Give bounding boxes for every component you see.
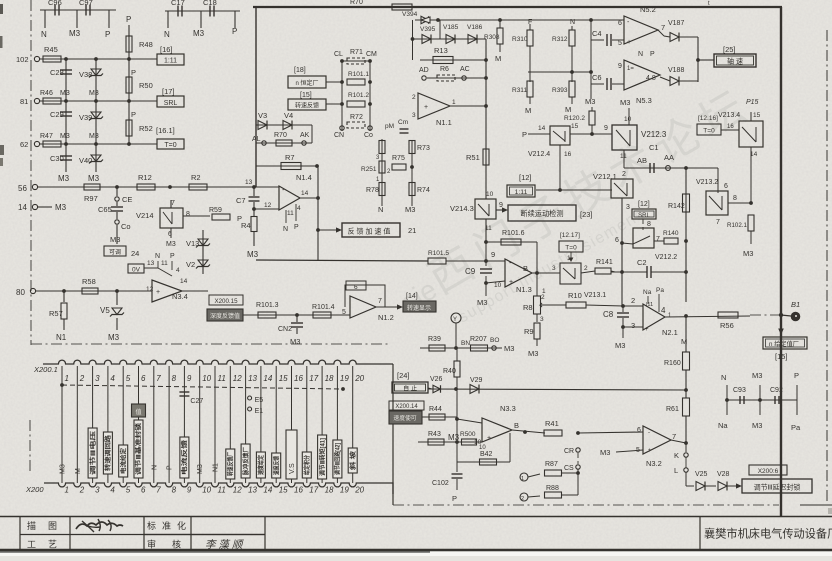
wire AB row — [624, 167, 686, 169]
terminal BO — [492, 346, 496, 350]
svg-text:R51: R51 — [466, 153, 480, 162]
svg-text:18: 18 — [325, 374, 334, 383]
wire AA to x718 — [686, 167, 718, 169]
node border B1 — [779, 313, 783, 317]
svg-text:调节Ⅲ延迟封锁: 调节Ⅲ延迟封锁 — [754, 483, 801, 492]
svg-text:AK: AK — [300, 132, 310, 139]
svg-text:R57: R57 — [49, 309, 63, 318]
svg-text:N1.1: N1.1 — [436, 118, 452, 127]
svg-text:X200.14: X200.14 — [395, 404, 418, 410]
svg-text:12: 12 — [233, 486, 242, 495]
svg-text:R70: R70 — [274, 132, 287, 139]
node CN2 — [295, 313, 299, 317]
svg-text:P: P — [105, 30, 110, 39]
wire N1.1 out — [450, 105, 486, 107]
svg-text:[12.17]: [12.17] — [560, 232, 580, 239]
svg-text:给定积分: 给定积分 — [303, 455, 311, 475]
svg-text:转速反馈: 转速反馈 — [295, 102, 319, 110]
svg-text:1:11: 1:11 — [164, 58, 177, 65]
wire row 62 — [39, 143, 157, 145]
connector dashed link — [62, 385, 343, 389]
node AA right — [684, 166, 688, 170]
svg-text:R43: R43 — [428, 431, 441, 438]
svg-text:n 恒定厂: n 恒定厂 — [295, 79, 318, 87]
node top rail c4 — [589, 18, 593, 22]
node join — [696, 58, 700, 62]
svg-text:转速调回路: 转速调回路 — [104, 434, 112, 471]
resistor R10 top border — [392, 4, 412, 10]
title block signature 1 — [76, 522, 123, 529]
svg-text:M3: M3 — [247, 250, 259, 259]
box n-set 恒定厂 — [288, 76, 326, 88]
svg-text:[15]: [15] — [300, 92, 312, 99]
resistor R101.1 — [347, 79, 365, 85]
svg-text:P: P — [452, 494, 457, 503]
fold mark dash-dot right — [826, 30, 828, 505]
resistor R41 — [544, 430, 562, 436]
resistor R71 dashed — [342, 60, 370, 62]
vertical CL column — [341, 61, 343, 131]
node y72 a — [570, 70, 574, 74]
svg-text:M3: M3 — [58, 174, 70, 183]
wire V213.4 down — [750, 147, 752, 202]
node R7 right — [315, 164, 319, 168]
pin6 dark box — [132, 404, 146, 417]
svg-text:速度给定: 速度给定 — [257, 455, 265, 475]
wire R43 row — [418, 441, 482, 443]
wire row 80 — [36, 290, 152, 292]
wire row 102 — [39, 58, 157, 60]
box 1:11 ratio — [157, 54, 184, 65]
capacitor C29 — [65, 101, 67, 144]
node row56 b — [168, 185, 172, 189]
box SRL — [157, 96, 184, 107]
svg-text:21: 21 — [408, 226, 416, 235]
big box left edge — [255, 7, 257, 187]
resistor R7 — [256, 165, 317, 167]
svg-text:化: 化 — [177, 520, 186, 531]
svg-text:P: P — [126, 15, 131, 24]
wire to R101.2 — [326, 103, 342, 105]
svg-text:M3: M3 — [752, 371, 762, 380]
svg-text:+: + — [648, 448, 652, 454]
svg-text:14: 14 — [180, 278, 188, 285]
box 0V — [128, 264, 144, 273]
terminal Co2 — [368, 126, 372, 130]
svg-text:调节Ⅲ电压: 调节Ⅲ电压 — [89, 431, 97, 475]
svg-text:C93: C93 — [733, 387, 746, 394]
svg-text:C18: C18 — [203, 0, 217, 7]
svg-text:62: 62 — [20, 140, 28, 149]
node pin6 bus — [620, 241, 624, 245]
node y72 b — [589, 70, 593, 74]
svg-text:12: 12 — [233, 374, 242, 383]
svg-text:M: M — [565, 105, 571, 114]
svg-text:+: + — [424, 104, 428, 111]
svg-text:R73: R73 — [417, 145, 430, 152]
svg-text:电流给定: 电流给定 — [119, 448, 127, 474]
svg-text:R101.3: R101.3 — [256, 302, 279, 309]
pin9 box 电流反馈 — [180, 437, 189, 478]
svg-text:R9: R9 — [524, 327, 534, 336]
diode V394 — [421, 16, 429, 24]
wire V25 V28 — [705, 485, 716, 487]
svg-text:1: 1 — [567, 255, 571, 262]
svg-text:2: 2 — [79, 486, 85, 495]
svg-text:R74: R74 — [417, 187, 430, 194]
svg-text:B1: B1 — [791, 300, 800, 309]
svg-text:R308: R308 — [484, 34, 500, 41]
capacitor C9 — [480, 268, 492, 270]
box 断续运动检测 — [508, 205, 576, 221]
node C8 top — [621, 304, 625, 308]
resistor R251 — [379, 161, 385, 173]
svg-text:N1.3: N1.3 — [516, 285, 532, 294]
capacitor C65 — [116, 202, 118, 206]
svg-text:7: 7 — [656, 236, 660, 243]
wire 13 input — [256, 186, 279, 188]
rail wire right — [727, 399, 797, 401]
title block mid line — [20, 534, 265, 536]
svg-text:M3: M3 — [110, 235, 120, 244]
dashed resistor R6 AD AC — [422, 76, 426, 80]
N1.2 output — [376, 306, 398, 308]
svg-text:V26: V26 — [430, 376, 443, 383]
svg-text:V3: V3 — [258, 111, 267, 120]
svg-text:P: P — [167, 465, 174, 470]
svg-text:R52: R52 — [139, 124, 153, 133]
diode V395 — [413, 38, 487, 40]
svg-text:9: 9 — [187, 374, 192, 383]
diode V187 — [658, 30, 664, 36]
svg-text:反 馈 加 速 值: 反 馈 加 速 值 — [348, 227, 391, 236]
svg-text:9: 9 — [491, 250, 495, 259]
svg-text:R141: R141 — [596, 259, 613, 266]
capacitor C7 — [253, 187, 255, 196]
node Y — [454, 346, 458, 350]
svg-text:6: 6 — [141, 374, 146, 383]
rail stub P — [108, 10, 110, 28]
svg-text:N5.2: N5.2 — [640, 5, 656, 14]
svg-text:+: + — [156, 289, 160, 296]
resistor R12 — [137, 184, 155, 190]
svg-text:11: 11 — [218, 374, 226, 383]
wire x686 down to N2.1 — [685, 241, 687, 302]
svg-text:14: 14 — [263, 486, 272, 495]
svg-text:V213.1: V213.1 — [584, 292, 606, 299]
wire R41 to N3.2 — [578, 432, 643, 433]
resistor R50 — [128, 59, 130, 101]
svg-text:断续运动检测: 断续运动检测 — [520, 209, 563, 218]
svg-text:M3: M3 — [60, 133, 70, 140]
svg-text:BO: BO — [490, 337, 499, 344]
svg-text:AC: AC — [460, 66, 470, 73]
svg-text:B: B — [514, 421, 519, 430]
resistor R40 — [456, 348, 458, 361]
relay V212.3 — [612, 125, 637, 150]
svg-text:调节Ⅲ回路[42]: 调节Ⅲ回路[42] — [334, 443, 342, 475]
svg-text:56: 56 — [18, 184, 27, 193]
connector top comb — [43, 360, 393, 364]
svg-text:X200: X200 — [25, 485, 44, 494]
svg-text:Pa: Pa — [791, 423, 801, 432]
wire input3 — [623, 326, 643, 328]
vertical bus x382 — [381, 139, 383, 206]
svg-text:5: 5 — [126, 374, 131, 383]
svg-text:R310: R310 — [512, 36, 528, 43]
resistor R142 — [685, 168, 687, 241]
svg-text:电流反馈: 电流反馈 — [181, 440, 189, 475]
wire y72 cross — [528, 71, 591, 73]
big box bottom edge — [256, 260, 428, 261]
svg-text:M3: M3 — [615, 341, 625, 350]
vertical x486 — [485, 39, 487, 165]
resistor R2 — [189, 184, 207, 190]
svg-text:pM: pM — [385, 123, 394, 130]
capacitor C102 — [456, 462, 458, 472]
relay V214.3 — [475, 199, 496, 219]
svg-text:Co: Co — [364, 132, 373, 139]
svg-text:V212.3: V212.3 — [641, 130, 667, 139]
rail wire top group1 — [40, 9, 116, 11]
wire row 81 — [39, 100, 157, 102]
resistor R393 — [569, 81, 575, 97]
svg-text:11: 11 — [161, 260, 168, 267]
resistor R46 — [43, 98, 61, 104]
svg-text:3: 3 — [540, 316, 544, 323]
scan edge artifacts — [0, 4, 3, 14]
potentiometer R8 — [536, 273, 538, 296]
zener V13 — [202, 230, 204, 274]
svg-text:CE: CE — [122, 195, 132, 204]
svg-text:N: N — [570, 19, 575, 26]
svg-text:-: - — [648, 430, 650, 436]
op-amp N1.3 — [505, 259, 532, 287]
capacitor C17 — [177, 6, 179, 17]
svg-text:81: 81 — [20, 97, 28, 106]
svg-text:V29: V29 — [470, 377, 483, 384]
terminal L — [684, 468, 688, 472]
diode V29 — [470, 385, 479, 394]
svg-text:13: 13 — [245, 179, 253, 186]
pin15 box 速度反馈 — [272, 453, 281, 478]
svg-text:3: 3 — [552, 265, 556, 272]
node C2 — [684, 270, 688, 274]
rail M3 stub — [759, 385, 761, 415]
svg-text:3: 3 — [626, 204, 630, 211]
svg-text:7: 7 — [661, 23, 665, 32]
terminal circ1 — [520, 473, 528, 481]
box 反馈加速值 — [342, 223, 400, 237]
wire x486 below V214.3 — [485, 219, 487, 242]
svg-text:工: 工 — [27, 540, 36, 550]
svg-text:E5: E5 — [255, 397, 264, 404]
svg-text:R58: R58 — [82, 277, 96, 286]
wire plus input — [486, 281, 505, 283]
fold mark dash-dot left lower — [29, 420, 31, 472]
svg-text:R48: R48 — [139, 40, 153, 49]
switch 13-11 arm — [144, 267, 158, 269]
pin3 box 调节Ⅲ电压 — [88, 428, 97, 478]
svg-text:速度反馈: 速度反馈 — [272, 456, 280, 475]
node C8 bottom — [621, 325, 625, 329]
resistor R4 — [251, 217, 257, 232]
svg-text:M3: M3 — [69, 29, 81, 38]
svg-text:[12]: [12] — [519, 173, 532, 182]
resistor R10 — [566, 302, 586, 308]
svg-text:P: P — [170, 253, 175, 260]
svg-text:艺: 艺 — [48, 540, 57, 550]
node R101.2 r — [368, 102, 372, 106]
op-amp N3.4 — [152, 280, 182, 302]
resistor R249 — [379, 141, 385, 154]
label M3 BO — [496, 347, 502, 349]
svg-text:2: 2 — [521, 496, 524, 502]
svg-text:3: 3 — [412, 112, 416, 119]
vertical bus x622 — [621, 198, 623, 306]
svg-text:C102: C102 — [432, 480, 449, 487]
wire V3V4 down — [311, 125, 313, 143]
node CM — [368, 59, 372, 63]
svg-text:C27: C27 — [190, 398, 203, 405]
svg-text:C4: C4 — [592, 29, 602, 38]
connector pin wires — [61, 366, 63, 483]
svg-text:18: 18 — [325, 486, 334, 495]
svg-text:9: 9 — [187, 486, 192, 495]
terminal CS — [576, 465, 580, 469]
terminal K — [685, 443, 687, 452]
svg-text:6: 6 — [354, 284, 358, 291]
capacitor C97 — [85, 5, 87, 16]
svg-text:R71: R71 — [350, 49, 363, 56]
zener V5 — [116, 291, 118, 305]
svg-text:T=0: T=0 — [703, 128, 715, 135]
sheet top border — [253, 6, 782, 8]
capacitor CN2 — [296, 315, 298, 322]
svg-text:+: + — [509, 279, 513, 286]
capacitor C96 — [54, 5, 56, 16]
rail stub M3 — [76, 10, 78, 28]
box X200:6 — [749, 465, 787, 475]
resistor R56 — [718, 312, 738, 318]
svg-text:V13: V13 — [186, 239, 199, 248]
boundary dash-dot horizontal mid — [31, 343, 390, 345]
capacitor C6 — [591, 83, 604, 85]
svg-text:9: 9 — [604, 125, 608, 132]
wire V212.3 down — [623, 150, 625, 168]
svg-text:M3: M3 — [600, 448, 610, 457]
node R75 right — [410, 165, 414, 169]
svg-text:6: 6 — [615, 237, 619, 244]
svg-text:C2: C2 — [637, 258, 647, 267]
svg-text:X200.1: X200.1 — [33, 365, 58, 374]
svg-text:R39: R39 — [428, 336, 441, 343]
diode V188 — [660, 77, 670, 81]
wire N1.4 out to node — [300, 197, 318, 199]
svg-text:V188: V188 — [668, 67, 684, 74]
svg-text:R120.2: R120.2 — [564, 115, 585, 122]
svg-text:8: 8 — [647, 221, 651, 228]
diode V4 — [283, 121, 292, 130]
node R41 — [576, 431, 580, 435]
svg-text:V25: V25 — [695, 471, 708, 478]
wire L down to diode row — [685, 472, 687, 486]
svg-text:P: P — [794, 371, 799, 380]
svg-text:1:11: 1:11 — [515, 189, 528, 196]
wire row 14 stub — [38, 206, 52, 208]
resistor R101.3 — [258, 312, 276, 318]
node C93 l — [725, 398, 729, 402]
svg-text:R101.1: R101.1 — [348, 71, 369, 78]
svg-text:7: 7 — [378, 298, 382, 305]
node row56 a — [115, 185, 119, 189]
terminal B1 — [791, 312, 801, 322]
vertical x591 — [590, 20, 592, 99]
svg-text:R40: R40 — [443, 368, 456, 375]
svg-text:12: 12 — [146, 286, 154, 293]
resistor R101.2 — [347, 101, 365, 107]
svg-text:V38: V38 — [79, 70, 92, 79]
wire row 56 — [38, 186, 268, 188]
svg-text:102: 102 — [16, 55, 29, 64]
svg-text:V2: V2 — [186, 260, 195, 269]
svg-text:7: 7 — [672, 432, 676, 441]
svg-text:20: 20 — [354, 486, 364, 495]
node V395 left — [411, 37, 415, 41]
dash-dot bottom right stub — [800, 504, 832, 506]
svg-text:V185: V185 — [443, 24, 459, 31]
svg-text:V4: V4 — [284, 111, 293, 120]
terminal CR — [576, 448, 580, 452]
svg-text:M3: M3 — [88, 174, 100, 183]
svg-text:2: 2 — [412, 94, 416, 101]
resistor R75 — [392, 164, 406, 170]
op-amp N5.2 — [624, 16, 658, 44]
op-amp N2.1 — [643, 304, 665, 330]
node row62 c — [127, 142, 131, 146]
wire N3.3 out — [512, 430, 545, 433]
node N3.3 out — [523, 430, 527, 434]
svg-text:+: + — [487, 435, 491, 442]
rail P stub — [796, 385, 798, 415]
title block vertical dividers — [19, 517, 21, 551]
wire X200.14 to R44 — [422, 416, 457, 418]
capacitor Cm — [400, 128, 409, 130]
svg-text:7: 7 — [156, 374, 161, 383]
svg-text:M3: M3 — [504, 344, 514, 353]
svg-text:CN: CN — [334, 132, 344, 139]
svg-text:M3: M3 — [60, 464, 67, 474]
svg-text:17: 17 — [309, 374, 318, 383]
resistor R102.1 — [748, 215, 754, 231]
resistor R73 — [409, 141, 415, 154]
fold mark dash-dot left — [30, 0, 32, 345]
arrow down to nset box — [780, 316, 782, 331]
svg-text:1=: 1= — [627, 66, 634, 72]
wire V214 pin7 up — [170, 200, 172, 208]
relay V213.2 — [706, 191, 728, 215]
resistor R78 — [379, 183, 385, 196]
wire N3.2 out — [671, 440, 686, 443]
svg-text:14: 14 — [538, 125, 546, 132]
svg-text:N: N — [155, 253, 160, 260]
switch V212.4 — [528, 133, 550, 135]
svg-text:[18]: [18] — [294, 67, 306, 74]
wire R141 out — [611, 271, 615, 272]
box 调节Ⅲ延迟封锁 — [742, 479, 812, 493]
svg-text:10: 10 — [202, 374, 211, 383]
generator symbol Y — [451, 313, 461, 323]
